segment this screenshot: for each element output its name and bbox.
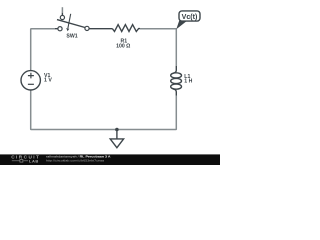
footer black bar xyxy=(0,154,220,165)
switch SW1 right terminal circle xyxy=(85,26,89,30)
footer credit line 1 xyxy=(46,155,111,159)
switch SW1 lever xyxy=(57,20,85,28)
ground junction dot xyxy=(115,128,119,132)
node flag Vc(t) box xyxy=(179,11,200,21)
svg-text:rafimahdaniansyah / RL Percoba: rafimahdaniansyah / RL Percobaan 3 A xyxy=(46,155,111,159)
inductor L1 coil bottom lead xyxy=(173,89,176,96)
svg-text:100 Ω: 100 Ω xyxy=(116,44,130,50)
svg-text:SW1: SW1 xyxy=(66,34,77,40)
ground stub xyxy=(116,130,118,139)
ground triangle xyxy=(110,139,123,148)
svg-text:Vc(t): Vc(t) xyxy=(182,13,198,21)
resistor R1 zigzag xyxy=(112,25,140,32)
wire: switch top terminal stub xyxy=(61,7,63,13)
svg-text:http://circuitlab.com/c/b653eb: http://circuitlab.com/c/b653ebt7ceaa xyxy=(46,159,104,163)
inductor L1 coil loop 2 xyxy=(171,78,182,83)
svg-text:1 H: 1 H xyxy=(184,79,192,85)
wire: top-left segment and left rail down to V1 xyxy=(31,29,55,71)
switch SW1 top terminal circle xyxy=(60,15,64,19)
svg-text:LAB: LAB xyxy=(29,158,39,163)
inductor L1 coil loop 1 xyxy=(171,73,182,78)
switch SW1 actuation arrow xyxy=(68,14,71,28)
inductor L1 coil loop 3 xyxy=(171,84,182,89)
wire: V1 bottom to bottom-left corner, bottom rail, up right rail to L1 xyxy=(31,90,177,130)
voltage source V1 circle xyxy=(21,71,40,90)
node flag Vc(t) pointer xyxy=(176,21,187,30)
switch SW1 dark leads xyxy=(55,13,112,29)
svg-text:1 V: 1 V xyxy=(44,78,52,84)
inductor L1 coil top lead xyxy=(173,66,176,73)
CircuitLab logo second row schematic line + LAB xyxy=(12,160,28,162)
switch SW1 left terminal circle xyxy=(58,27,62,31)
V1 minus sign xyxy=(28,83,34,85)
wire: resistor right lead to top-right corner, down to L1 top xyxy=(140,29,176,66)
V1 plus sign xyxy=(28,73,34,79)
footer credit line 2 xyxy=(46,159,104,163)
